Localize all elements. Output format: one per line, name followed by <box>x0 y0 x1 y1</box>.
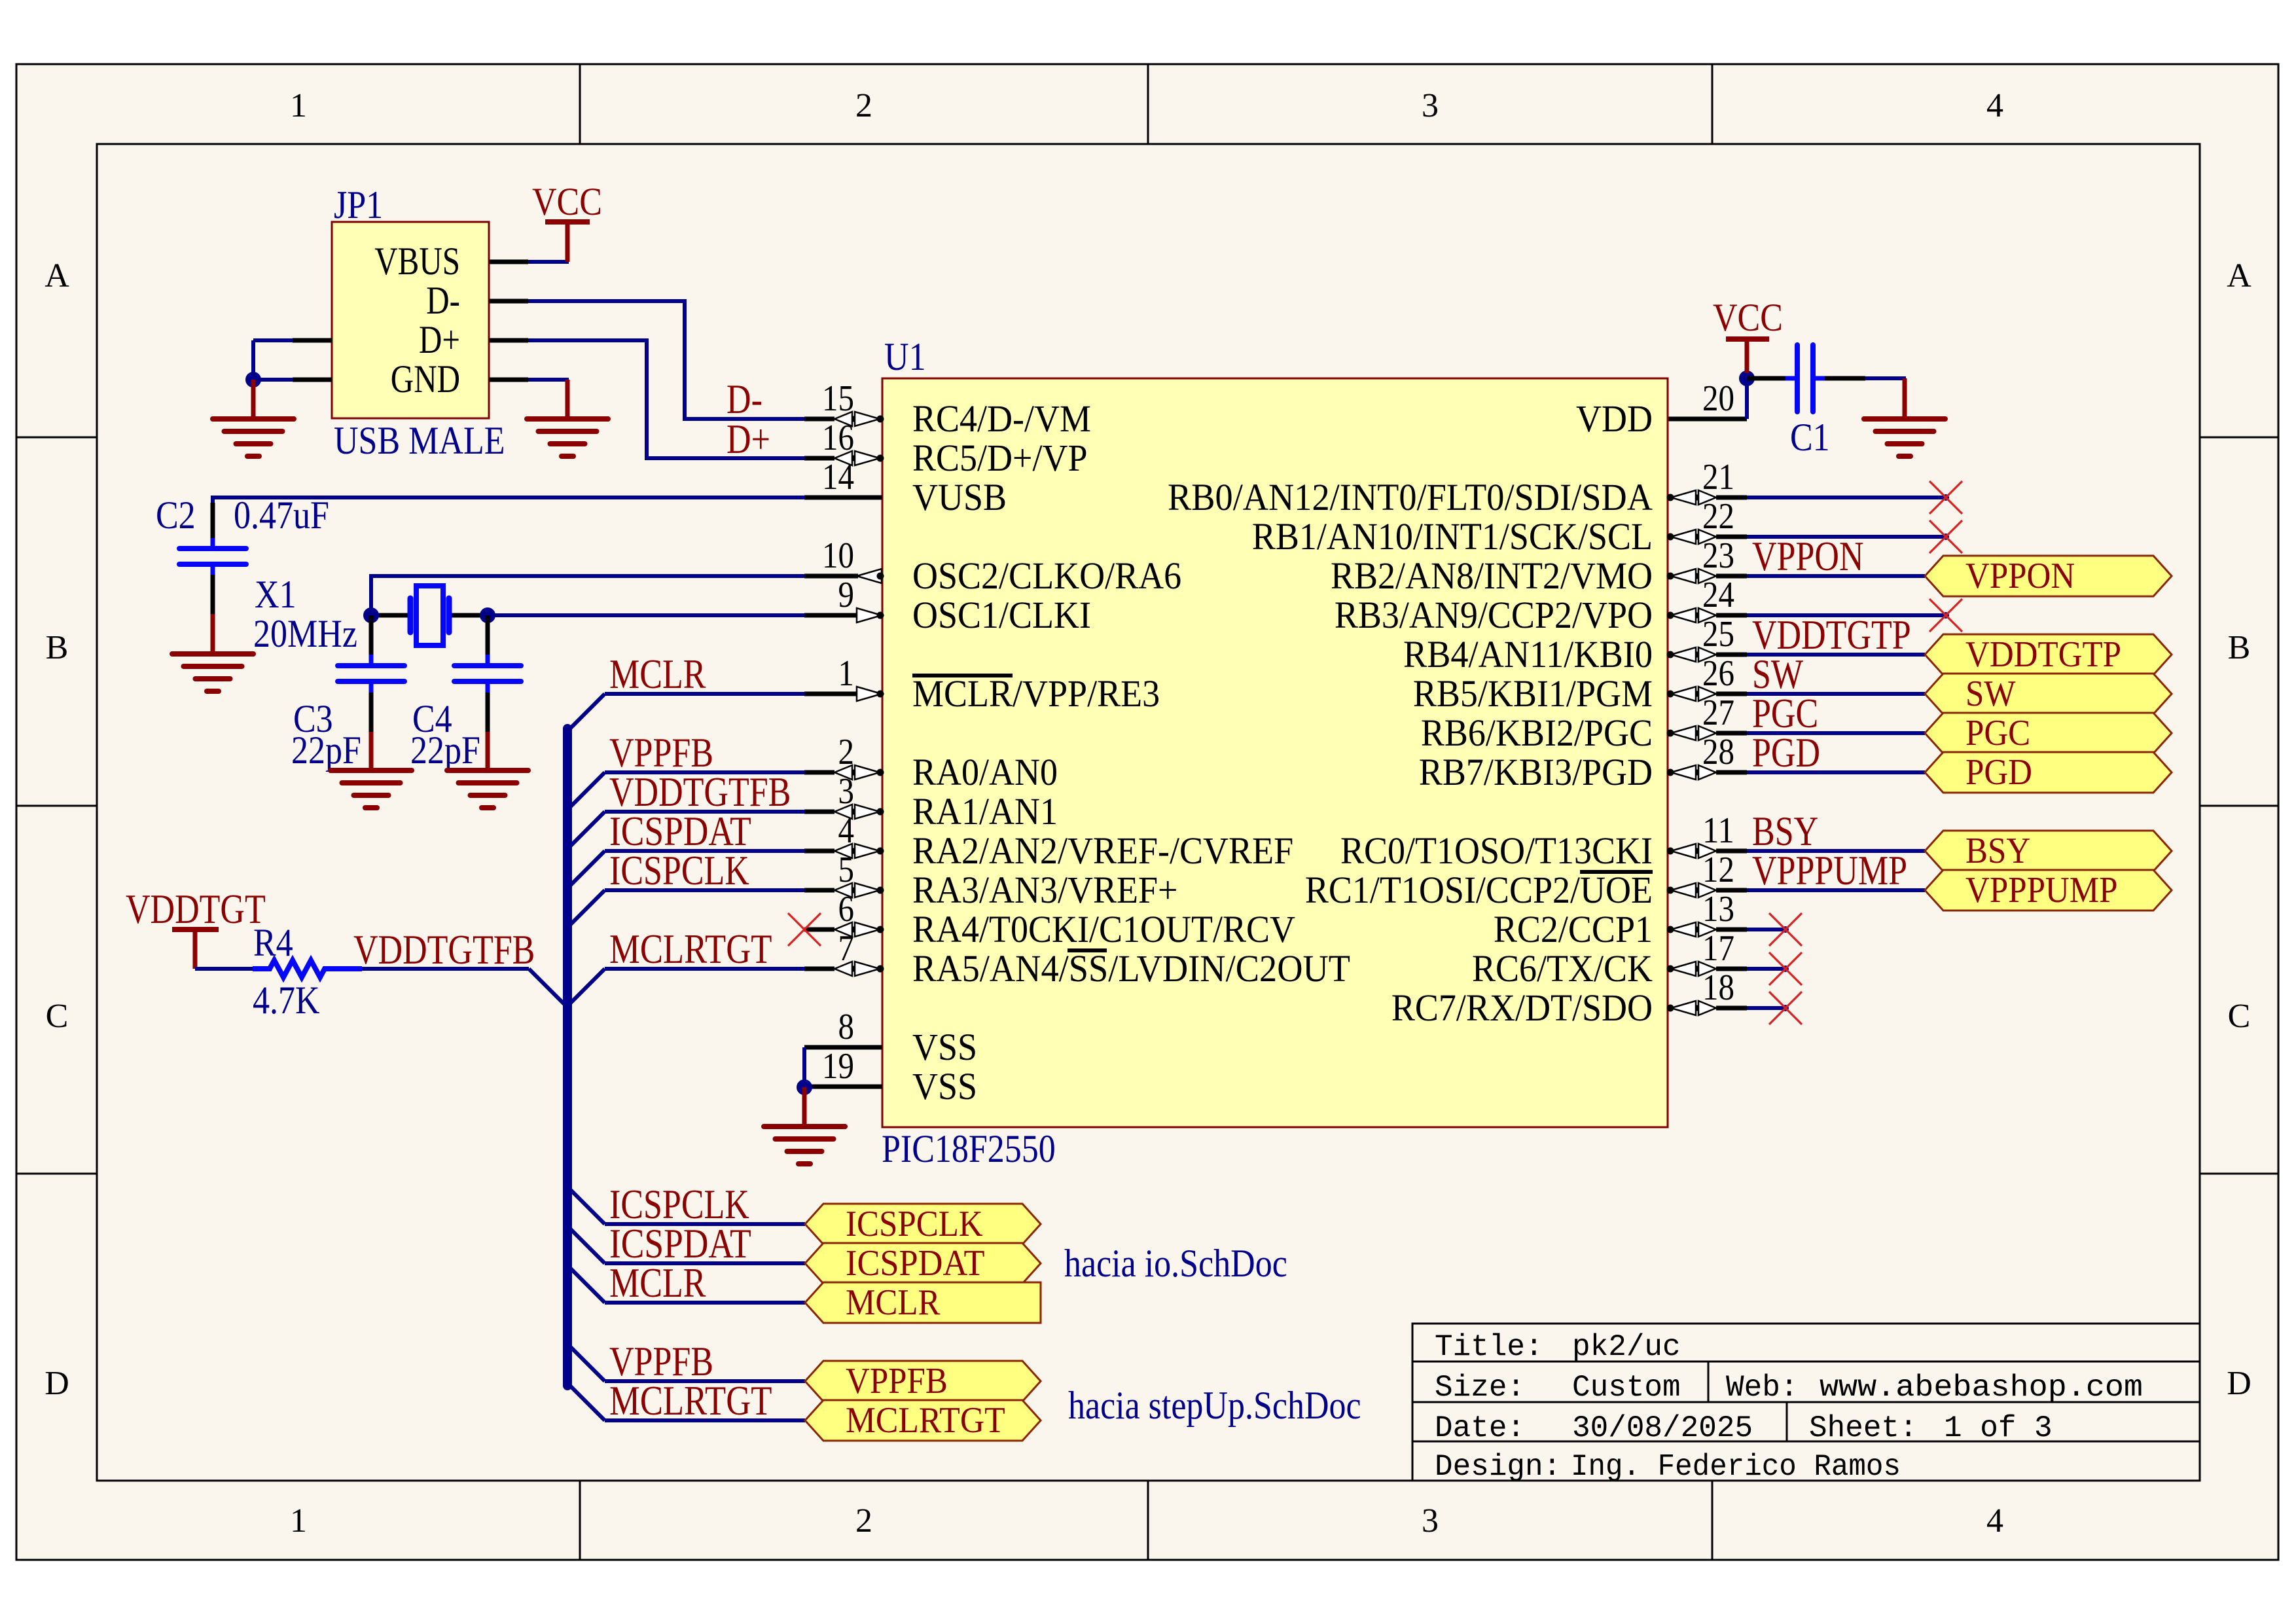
svg-text:22pF: 22pF <box>410 729 480 772</box>
ground at C2 <box>172 614 253 691</box>
svg-text:2: 2 <box>838 732 855 772</box>
svg-text:X1: X1 <box>255 573 296 616</box>
svg-text:VCC: VCC <box>1713 296 1783 339</box>
svg-text:20: 20 <box>1702 378 1734 419</box>
net label BSY wire <box>1752 808 1818 854</box>
svg-text:VBUS: VBUS <box>374 240 460 283</box>
junction at crystal left <box>363 607 379 623</box>
svg-text:1: 1 <box>290 1502 307 1540</box>
port MCLR <box>805 1282 1041 1323</box>
svg-text:30/08/2025: 30/08/2025 <box>1572 1411 1753 1445</box>
net label VPPON wire <box>1752 533 1864 579</box>
U1 pin 14 VUSB <box>804 457 1007 518</box>
svg-text:pk2/uc: pk2/uc <box>1572 1330 1681 1364</box>
ground at C1 <box>1864 378 1945 456</box>
power VDDTGT <box>126 886 266 969</box>
svg-text:MCLRTGT: MCLRTGT <box>846 1400 1005 1441</box>
wire pin row 820 no-connect <box>1747 520 1962 553</box>
svg-text:SW: SW <box>1965 674 2016 714</box>
ground at C4 <box>447 732 528 808</box>
wire MCLR to port <box>567 1265 805 1303</box>
svg-text:MCLRTGT: MCLRTGT <box>609 926 772 972</box>
svg-text:VSS: VSS <box>912 1065 977 1108</box>
port ICSPCLK <box>805 1204 1041 1244</box>
overline MCLR pin 1 <box>912 674 1013 677</box>
U1 pin 4 RA2/AN2/VREF-/CVREF <box>804 810 1293 872</box>
U1 pin 3 RA1/AN1 <box>804 771 1058 833</box>
svg-text:MCLRTGT: MCLRTGT <box>609 1377 772 1424</box>
net label VDDTGTFB <box>609 768 791 815</box>
svg-text:Custom: Custom <box>1572 1371 1681 1405</box>
port BSY <box>1925 831 2172 871</box>
wire OSC2 from crystal to U1 pin 10 <box>371 576 806 615</box>
U1 pin 5 RA3/AN3/VREF+ <box>804 850 1178 911</box>
bus harness vertical <box>563 729 572 1386</box>
capacitor C3 <box>291 615 404 772</box>
wire VDDTGTFB to U1 <box>567 812 806 849</box>
net label ICSPDAT <box>609 808 751 854</box>
svg-text:Title:: Title: <box>1435 1330 1543 1364</box>
wire MCLR to U1 <box>567 694 806 731</box>
U1 pin 28 RB7/KBI3/PGD <box>1419 732 1747 793</box>
net label VPPFB <box>609 729 713 776</box>
port SW <box>1925 674 2172 714</box>
ground at JP1 GND pin <box>527 380 608 456</box>
wire pin row 1300 to port BSY <box>1747 849 1925 853</box>
net label ICSPCLK lower <box>609 1181 749 1227</box>
svg-text:VPPON: VPPON <box>1965 556 2075 596</box>
svg-text:Design:: Design: <box>1435 1450 1561 1484</box>
svg-text:0.47uF: 0.47uF <box>234 494 329 537</box>
svg-text:VPPFB: VPPFB <box>846 1361 948 1401</box>
designator U1 <box>884 335 926 378</box>
wire VUSB from C2 to U1 pin 14 <box>213 497 806 505</box>
junction at JP1 shield <box>245 372 261 388</box>
svg-text:RB3/AN9/CCP2/VPO: RB3/AN9/CCP2/VPO <box>1335 594 1653 636</box>
connector JP1 body <box>332 222 489 418</box>
wire JP1 left shield <box>253 340 293 380</box>
wire VBUS to VCC <box>528 260 569 264</box>
svg-text:C2: C2 <box>156 494 196 537</box>
port MCLRTGT <box>805 1400 1041 1441</box>
wire pin row 1480 no-connect <box>1747 952 1802 985</box>
svg-text:4: 4 <box>1986 87 2003 124</box>
svg-text:3: 3 <box>1422 87 1439 124</box>
wire pin row 1420 no-connect <box>1747 913 1802 946</box>
port VPPPUMP <box>1925 870 2172 911</box>
svg-text:22pF: 22pF <box>291 729 361 772</box>
svg-text:8: 8 <box>838 1007 855 1047</box>
svg-text:RC0/T1OSO/T13CKI: RC0/T1OSO/T13CKI <box>1340 829 1653 872</box>
net label VDDTGTP wire <box>1752 611 1911 658</box>
mcu U1 body <box>882 378 1668 1127</box>
svg-text:C1: C1 <box>1790 416 1830 459</box>
svg-text:VPPON: VPPON <box>1752 533 1864 579</box>
svg-text:22: 22 <box>1702 496 1734 537</box>
svg-text:VPPPUMP: VPPPUMP <box>1752 847 1907 893</box>
wire VPPFB to port <box>567 1344 805 1381</box>
U1 pin 20 VDD <box>1576 378 1747 440</box>
svg-text:D-: D- <box>426 279 460 322</box>
wire ICSPCLK to port <box>567 1187 805 1224</box>
port VDDTGTP <box>1925 634 2172 675</box>
svg-text:U1: U1 <box>884 335 926 378</box>
svg-text:MCLR/VPP/RE3: MCLR/VPP/RE3 <box>912 672 1160 715</box>
svg-text:1: 1 <box>838 653 855 694</box>
svg-text:25: 25 <box>1702 614 1734 655</box>
no-connect X pin 6 <box>788 913 821 946</box>
svg-text:20MHz: 20MHz <box>253 612 357 655</box>
svg-text:JP1: JP1 <box>334 183 383 226</box>
svg-text:MCLR: MCLR <box>846 1282 941 1323</box>
net label PGC wire <box>1752 690 1818 736</box>
svg-text:VDD: VDD <box>1576 397 1653 440</box>
U1 pin 6 RA4/T0CKI/C1OUT/RCV <box>804 889 1295 950</box>
net label D- <box>726 376 762 422</box>
svg-text:MCLR: MCLR <box>609 1259 706 1306</box>
svg-text:6: 6 <box>838 889 855 929</box>
svg-text:RB7/KBI3/PGD: RB7/KBI3/PGD <box>1419 751 1653 793</box>
svg-text:RA2/AN2/VREF-/CVREF: RA2/AN2/VREF-/CVREF <box>912 829 1293 872</box>
svg-text:RB6/KBI2/PGC: RB6/KBI2/PGC <box>1421 712 1653 754</box>
svg-text:www.abebashop.com: www.abebashop.com <box>1820 1371 2143 1405</box>
svg-text:4: 4 <box>838 810 855 851</box>
svg-text:Web:: Web: <box>1726 1371 1798 1405</box>
wire VDDTGTFB from R4 to bus <box>362 969 566 1006</box>
U1 pin 15 RC4/D-/VM <box>804 378 1091 440</box>
svg-text:RB1/AN10/INT1/SCK/SCL: RB1/AN10/INT1/SCK/SCL <box>1252 515 1653 558</box>
svg-text:hacia stepUp.SchDoc: hacia stepUp.SchDoc <box>1068 1384 1361 1427</box>
wire VSS pins 8 19 <box>802 1047 806 1087</box>
wire OSC1 from crystal to U1 pin 9 <box>488 613 806 617</box>
U1 pin 1 MCLR/VPP/RE3 <box>804 653 1160 715</box>
svg-text:D+: D+ <box>726 416 770 462</box>
svg-text:14: 14 <box>822 457 854 497</box>
overline UOE pin 12 <box>1580 870 1653 874</box>
U1 pin 11 RC0/T1OSO/T13CKI <box>1340 810 1747 872</box>
svg-text:26: 26 <box>1702 653 1734 694</box>
svg-text:VSS: VSS <box>912 1026 977 1068</box>
wire pin row 1180 to port PGD <box>1747 770 1925 774</box>
wire pin row 1360 to port VPPPUMP <box>1747 888 1925 892</box>
svg-text:3: 3 <box>838 771 855 812</box>
svg-text:RB5/KBI1/PGM: RB5/KBI1/PGM <box>1413 672 1653 715</box>
wire pin row 760 no-connect <box>1747 481 1962 514</box>
svg-text:21: 21 <box>1702 457 1734 497</box>
svg-text:4: 4 <box>1986 1502 2003 1540</box>
svg-text:OSC2/CLKO/RA6: OSC2/CLKO/RA6 <box>912 554 1181 597</box>
svg-text:RC2/CCP1: RC2/CCP1 <box>1494 908 1653 950</box>
svg-text:RB4/AN11/KBI0: RB4/AN11/KBI0 <box>1403 633 1653 676</box>
label hacia io.SchDoc <box>1064 1242 1287 1285</box>
svg-text:RA3/AN3/VREF+: RA3/AN3/VREF+ <box>912 869 1178 911</box>
svg-text:RC6/TX/CK: RC6/TX/CK <box>1472 947 1653 990</box>
svg-text:9: 9 <box>838 575 855 615</box>
svg-text:D+: D+ <box>419 318 460 361</box>
svg-text:ICSPCLK: ICSPCLK <box>846 1204 983 1244</box>
wire ICSPDAT to U1 <box>567 851 806 888</box>
U1 pin 17 RC6/TX/CK <box>1472 928 1747 990</box>
svg-text:VDDTGTP: VDDTGTP <box>1965 634 2121 675</box>
port PGC <box>1925 713 2172 753</box>
svg-text:5: 5 <box>838 850 855 890</box>
label PIC18F2550 <box>882 1127 1056 1170</box>
wire pin row 1120 to port PGC <box>1747 731 1925 735</box>
U1 pin 25 RB4/AN11/KBI0 <box>1403 614 1747 676</box>
port ICSPDAT <box>805 1243 1041 1284</box>
svg-text:Ing. Federico Ramos: Ing. Federico Ramos <box>1571 1450 1901 1484</box>
junction at VCC node <box>1739 370 1755 386</box>
net label MCLR lower <box>609 1259 706 1306</box>
U1 pin 21 RB0/AN12/INT0/FLT0/SDI/SDA <box>1168 457 1747 518</box>
U1 pin 26 RB5/KBI1/PGM <box>1413 653 1747 715</box>
svg-text:15: 15 <box>822 378 854 419</box>
svg-text:18: 18 <box>1702 967 1734 1008</box>
svg-text:1: 1 <box>290 87 307 124</box>
U1 pin 10 OSC2/CLKO/RA6 <box>804 535 1181 597</box>
label USB MALE <box>334 419 505 462</box>
wire pin row 940 no-connect <box>1747 599 1962 632</box>
net label VPPFB lower <box>609 1338 713 1384</box>
svg-text:MCLR: MCLR <box>609 651 706 697</box>
capacitor C2 <box>156 494 329 615</box>
svg-text:Date:: Date: <box>1435 1411 1525 1445</box>
svg-text:R4: R4 <box>253 921 293 964</box>
net label ICSPDAT lower <box>609 1220 751 1267</box>
U1 pin 16 RC5/D+/VP <box>804 418 1088 479</box>
ground at JP1 shield <box>213 380 294 456</box>
svg-text:16: 16 <box>822 418 854 458</box>
wire VPPFB to U1 <box>567 772 806 810</box>
capacitor C4 <box>410 615 521 772</box>
port VPPFB <box>805 1361 1041 1401</box>
svg-text:BSY: BSY <box>1965 831 2030 871</box>
U1 pin 18 RC7/RX/DT/SDO <box>1391 967 1747 1029</box>
net label SW wire <box>1752 651 1803 697</box>
net label MCLRTGT <box>609 926 772 972</box>
wire D+ from JP1 to U1 pin 16 <box>528 340 806 458</box>
label hacia stepUp.SchDoc <box>1068 1384 1361 1427</box>
svg-text:VDDTGTFB: VDDTGTFB <box>353 926 535 973</box>
svg-text:23: 23 <box>1702 535 1734 576</box>
svg-text:Size:: Size: <box>1435 1371 1525 1405</box>
svg-text:C: C <box>2228 998 2251 1035</box>
svg-text:24: 24 <box>1702 575 1734 615</box>
svg-text:hacia io.SchDoc: hacia io.SchDoc <box>1064 1242 1287 1285</box>
svg-text:RA0/AN0: RA0/AN0 <box>912 751 1058 793</box>
svg-text:D: D <box>2227 1365 2251 1402</box>
svg-text:Sheet:: Sheet: <box>1809 1411 1918 1445</box>
svg-text:RC7/RX/DT/SDO: RC7/RX/DT/SDO <box>1391 986 1653 1029</box>
svg-text:1 of 3: 1 of 3 <box>1944 1411 2053 1445</box>
svg-text:PIC18F2550: PIC18F2550 <box>882 1127 1056 1170</box>
svg-text:RB0/AN12/INT0/FLT0/SDI/SDA: RB0/AN12/INT0/FLT0/SDI/SDA <box>1168 476 1653 518</box>
title block <box>1412 1324 2200 1484</box>
svg-text:RC4/D-/VM: RC4/D-/VM <box>912 397 1091 440</box>
net label VPPPUMP wire <box>1752 847 1907 893</box>
port VPPON <box>1925 556 2172 596</box>
svg-text:VCC: VCC <box>532 180 602 223</box>
U1 pin 2 RA0/AN0 <box>804 732 1058 793</box>
svg-text:RC5/D+/VP: RC5/D+/VP <box>912 437 1088 479</box>
U1 pin 19 VSS <box>804 1046 977 1108</box>
svg-text:12: 12 <box>1702 850 1734 890</box>
svg-text:13: 13 <box>1702 889 1734 929</box>
svg-text:RA1/AN1: RA1/AN1 <box>912 790 1058 833</box>
ground at VSS <box>764 1087 845 1164</box>
U1 pin 8 VSS <box>804 1007 977 1068</box>
wire MCLRTGT to U1 <box>567 969 806 1006</box>
connector JP1 pins <box>293 240 528 401</box>
svg-text:C: C <box>46 998 69 1035</box>
U1 pin 27 RB6/KBI2/PGC <box>1421 693 1747 754</box>
U1 pin 9 OSC1/CLKI <box>804 575 1091 636</box>
svg-text:D: D <box>45 1365 69 1402</box>
crystal X1 <box>253 573 488 655</box>
svg-text:17: 17 <box>1702 928 1734 969</box>
wire ICSPCLK to U1 <box>567 890 806 928</box>
svg-text:ICSPCLK: ICSPCLK <box>609 847 749 893</box>
wire VDD to VCC node <box>1745 378 1749 419</box>
svg-text:27: 27 <box>1702 693 1734 733</box>
svg-text:OSC1/CLKI: OSC1/CLKI <box>912 594 1091 636</box>
svg-text:11: 11 <box>1702 810 1734 851</box>
wire pin row 1060 to port SW <box>1747 692 1925 696</box>
svg-text:RB2/AN8/INT2/VMO: RB2/AN8/INT2/VMO <box>1331 554 1653 597</box>
net label D+ <box>726 416 770 462</box>
wire pin row 880 to port VPPON <box>1747 574 1925 578</box>
svg-text:USB MALE: USB MALE <box>334 419 505 462</box>
svg-text:RA5/AN4/SS/LVDIN/C2OUT: RA5/AN4/SS/LVDIN/C2OUT <box>912 947 1350 990</box>
wire VDDTGT to R4 <box>195 967 253 971</box>
svg-text:28: 28 <box>1702 732 1734 772</box>
net label PGD wire <box>1752 729 1820 776</box>
wire MCLRTGT to port <box>567 1383 805 1420</box>
power VCC at U1 <box>1713 296 1783 373</box>
svg-text:VUSB: VUSB <box>912 476 1007 518</box>
ground at C3 <box>331 732 412 808</box>
net label MCLRTGT lower <box>609 1377 772 1424</box>
net label ICSPCLK <box>609 847 749 893</box>
designator JP1 <box>334 183 383 226</box>
svg-text:7: 7 <box>838 928 855 969</box>
U1 pin 7 RA5/AN4/SS/LVDIN/C2OUT <box>804 928 1350 990</box>
svg-text:ICSPDAT: ICSPDAT <box>846 1243 985 1284</box>
svg-text:2: 2 <box>855 87 872 124</box>
U1 pin 24 RB3/AN9/CCP2/VPO <box>1335 575 1747 636</box>
svg-text:VPPPUMP: VPPPUMP <box>1965 870 2118 911</box>
net label MCLR <box>609 651 706 697</box>
power VCC at JP1 <box>532 180 602 262</box>
svg-text:4.7K: 4.7K <box>253 979 320 1022</box>
svg-text:A: A <box>2227 257 2251 295</box>
svg-text:3: 3 <box>1422 1502 1439 1540</box>
U1 pin 22 RB1/AN10/INT1/SCK/SCL <box>1252 496 1747 558</box>
net label VDDTGTFB at R4 <box>353 926 535 973</box>
svg-text:PGD: PGD <box>1965 752 2032 793</box>
U1 pin 13 RC2/CCP1 <box>1494 889 1747 950</box>
U1 pin 23 RB2/AN8/INT2/VMO <box>1331 535 1747 597</box>
wire ICSPDAT to port <box>567 1226 805 1263</box>
svg-text:B: B <box>2228 629 2251 666</box>
wire pin row 1540 no-connect <box>1747 992 1802 1024</box>
capacitor C1 <box>1747 345 1906 459</box>
svg-text:2: 2 <box>855 1502 872 1540</box>
svg-text:PGD: PGD <box>1752 729 1820 776</box>
wire JP1 GND to ground <box>528 378 569 382</box>
wire D- from JP1 to U1 pin 15 <box>528 301 806 419</box>
svg-text:PGC: PGC <box>1965 713 2030 753</box>
svg-text:RA4/T0CKI/C1OUT/RCV: RA4/T0CKI/C1OUT/RCV <box>912 908 1295 950</box>
svg-text:GND: GND <box>391 357 460 401</box>
port PGD <box>1925 752 2172 793</box>
overline SS pin 7 <box>1067 948 1107 952</box>
svg-text:RC1/T1OSI/CCP2/UOE: RC1/T1OSI/CCP2/UOE <box>1305 869 1653 911</box>
svg-text:VDDTGT: VDDTGT <box>126 886 266 932</box>
svg-text:10: 10 <box>822 535 854 576</box>
U1 pin 12 RC1/T1OSI/CCP2/UOE <box>1305 850 1747 911</box>
junction at VSS <box>797 1079 812 1095</box>
svg-text:B: B <box>46 629 69 666</box>
svg-text:19: 19 <box>822 1046 854 1087</box>
svg-text:A: A <box>45 257 69 295</box>
resistor R4 <box>253 921 362 1022</box>
junction at crystal right <box>480 607 495 623</box>
wire pin row 1000 to port VDDTGTP <box>1747 653 1925 657</box>
